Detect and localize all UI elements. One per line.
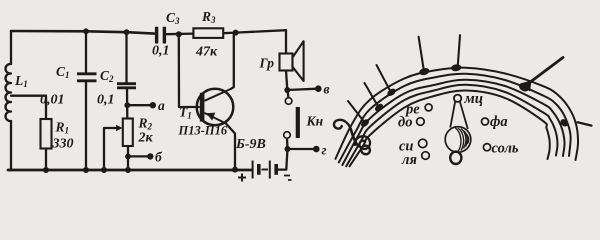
wire bottom rail (8, 169, 252, 172)
hole ring do (417, 118, 425, 126)
staff arc 2 (339, 74, 571, 163)
staff arc 1 (outer) (336, 68, 579, 160)
speaker Gr cone (293, 41, 304, 81)
pushbutton Kn top contact (285, 98, 292, 105)
wire R3 to speaker corner (223, 30, 286, 33)
wire C2 bottom to R2 (126, 89, 129, 119)
svg-text:П13-П16: П13-П16 (178, 124, 228, 138)
tuning knob: ball (445, 127, 471, 153)
battery plus sign (238, 174, 246, 182)
svg-text:330: 330 (52, 137, 74, 152)
wire coil tap to R1 (11, 96, 46, 119)
svg-text:а: а (158, 98, 165, 113)
battery minus mark (284, 176, 292, 181)
wire C3 node to T1 base (179, 34, 199, 107)
tuning knob: bottom loop (450, 152, 461, 164)
svg-text:до: до (398, 115, 412, 131)
svg-text:соль: соль (492, 140, 519, 156)
hole ring fa (482, 118, 489, 125)
hole ring si (419, 139, 427, 147)
hole ring sol (483, 144, 490, 151)
note pointer fa (thick stem) (518, 58, 563, 94)
wire R2 wiper to rail (104, 128, 120, 170)
wire C3 to R3 (167, 32, 194, 35)
capacitor C2 (117, 84, 136, 88)
terminal a (150, 102, 156, 108)
paper background (0, 0, 600, 192)
pushbutton Kn actuator bar (296, 107, 300, 138)
junction node dots (43, 28, 291, 173)
svg-text:0,1: 0,1 (152, 44, 170, 59)
wire top rail (11, 31, 154, 34)
transistor T1 base bar (200, 93, 205, 122)
svg-text:в: в (324, 82, 330, 97)
note dot do (377, 65, 398, 97)
wire C1 branch upper (85, 31, 87, 72)
wire R2 bottom / node b stub (128, 146, 150, 170)
svg-text:2к: 2к (138, 131, 154, 146)
terminal g (313, 146, 320, 153)
svg-text:ля: ля (401, 152, 417, 168)
wire C2 branch upper (125, 32, 127, 82)
wire C1 branch lower (85, 83, 87, 171)
wire speaker junction to switch top (286, 90, 289, 98)
wire speaker drop (285, 30, 287, 53)
svg-text:47к: 47к (195, 45, 218, 60)
staff arc 4 (346, 85, 557, 167)
hole ring re (425, 104, 432, 111)
staff arc 3 (342, 80, 564, 165)
tuning knob: cone lines (450, 101, 468, 129)
wire collector to rail (231, 33, 234, 89)
terminal v (315, 85, 322, 92)
resistor R3 (193, 28, 223, 38)
treble clef (330, 116, 376, 156)
inductor L1 (6, 64, 11, 121)
note dot lya (left lowest) (348, 101, 370, 128)
pushbutton Kn bottom contact (284, 132, 291, 139)
musical dial: five staff arcs (336, 68, 579, 167)
svg-text:Кн: Кн (306, 114, 324, 129)
wire R1 bottom (45, 149, 47, 171)
resistor R2 (potentiometer) (123, 119, 133, 147)
capacitor C1 (77, 74, 97, 81)
wire battery right lead up (278, 149, 288, 170)
note dot si (365, 83, 385, 113)
wire node g stub (288, 148, 316, 150)
wire emitter to rail (226, 123, 235, 169)
battery B-9V cell plates (253, 161, 277, 179)
hole ring lya (422, 152, 430, 160)
wire coil bottom to rail (8, 121, 11, 170)
transistor T1 emitter lead (204, 113, 225, 124)
svg-text:0,01: 0,01 (40, 93, 65, 108)
svg-text:фа: фа (490, 114, 508, 130)
terminal b (147, 153, 153, 159)
transistor T1 collector lead (204, 89, 231, 101)
potentiometer R2 wiper arrow (116, 125, 123, 131)
wire left branch (to coil top) (10, 31, 12, 64)
capacitor C3 (157, 27, 165, 44)
tuning knob: top circle (454, 95, 461, 102)
resistor R1 (41, 119, 52, 149)
svg-text:г: г (322, 143, 327, 158)
tuning knob: ball shading (455, 128, 469, 152)
svg-text:мц: мц (464, 91, 484, 107)
svg-text:0,1: 0,1 (97, 93, 115, 108)
wire node a stub (127, 104, 152, 106)
staff arc 5 (inner) (350, 90, 550, 166)
svg-text:Гр: Гр (259, 56, 275, 71)
note dot mi (451, 35, 462, 72)
wire switch bottom to node g junction (286, 139, 289, 150)
transistor T1 emitter arrow (PNP) (206, 113, 215, 121)
speaker Gr box (280, 54, 293, 71)
transistor T1 circle (197, 89, 234, 126)
svg-text:Б-9В: Б-9В (235, 137, 266, 152)
note dot re (418, 37, 430, 77)
note dot sol (559, 118, 592, 128)
wire speaker bottom / node v stub (286, 71, 318, 91)
